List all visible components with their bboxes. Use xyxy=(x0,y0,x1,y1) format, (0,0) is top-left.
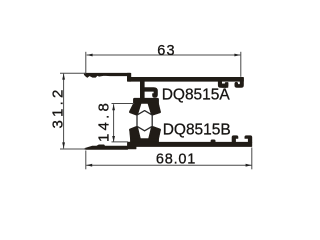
extension line left of 63 xyxy=(85,52,87,73)
arrow 14.8 bottom xyxy=(112,136,115,142)
profile DQ8515B left thin arm xyxy=(85,145,128,150)
profile DQ8515A right end hook (glazing lip) xyxy=(235,78,244,87)
arrow 14.8 top xyxy=(112,104,115,110)
hexagon screw boss xyxy=(137,111,152,131)
extension line right of 68.01 xyxy=(251,148,253,170)
profile DQ8515A middle gasket hook xyxy=(218,80,228,87)
arrow 68.01 left xyxy=(86,164,92,167)
profile DQ8515B step and lower-left thick part xyxy=(128,142,136,149)
extension line bottom of 31.2 xyxy=(60,148,86,150)
profile DQ8515A main top bar xyxy=(129,77,244,81)
arrow 63 left xyxy=(87,54,93,57)
extension line right of 63 xyxy=(240,52,242,77)
profile DQ8515A step joining arm to main bar xyxy=(127,73,130,81)
profile DQ8515B main bottom bar xyxy=(128,142,252,146)
svg-text:14.8: 14.8 xyxy=(96,100,113,142)
profile DQ8515A left thin arm with teeth xyxy=(84,73,130,77)
dimension 31.2 line xyxy=(63,74,65,149)
interlock lower-left wing xyxy=(129,126,140,139)
interlock block top bar xyxy=(133,98,158,103)
extension tick bottom of 14.8 xyxy=(112,141,129,143)
profile DQ8515B small rib on top of bar xyxy=(211,140,215,143)
interlock lower-right wing xyxy=(148,126,160,139)
extension tick top of 14.8 xyxy=(112,103,135,105)
arrow 63 right xyxy=(234,54,240,57)
profile DQ8515A C-hook on web xyxy=(144,88,157,98)
svg-text:DQ8515B: DQ8515B xyxy=(163,122,231,139)
dimension 68.01 line xyxy=(86,164,251,166)
extension line left of 68.01 xyxy=(85,151,87,170)
svg-text:DQ8515A: DQ8515A xyxy=(162,87,231,104)
arrow 31.2 bottom xyxy=(62,142,65,148)
interlock upper-left wing xyxy=(129,103,141,115)
dimension 14.8 line xyxy=(113,104,115,142)
profile DQ8515A central web down to interlock xyxy=(140,80,144,100)
arrow 31.2 top xyxy=(62,74,65,80)
dimension 63 line xyxy=(87,54,241,56)
arrow 68.01 right xyxy=(246,164,252,167)
profile DQ8515B right gasket prong xyxy=(245,136,252,143)
profile DQ8515B left gasket prong xyxy=(232,136,238,143)
interlock upper-right wing xyxy=(148,103,161,115)
svg-text:31.2: 31.2 xyxy=(49,87,66,129)
extension line top of 31.2 xyxy=(60,72,86,74)
svg-text:63: 63 xyxy=(157,43,176,59)
svg-text:68.01: 68.01 xyxy=(156,151,196,167)
interlock bottom bar xyxy=(130,139,158,143)
